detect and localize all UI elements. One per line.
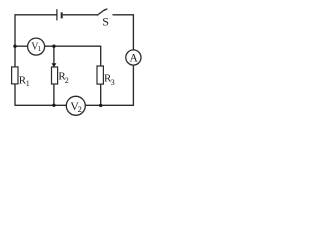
resistor R3 (97, 66, 103, 84)
wire R2 slider lead (53, 46, 55, 64)
resistor R2 (rheostat box) (52, 67, 58, 84)
resistor R1 (12, 67, 18, 84)
battery short plate (61, 12, 63, 18)
svg-text:A: A (130, 53, 139, 65)
wire R3 top lead (100, 46, 102, 66)
battery long plate (56, 9, 58, 20)
wire V1 to node B (45, 45, 54, 47)
svg-text:2: 2 (78, 104, 82, 114)
svg-text:1: 1 (38, 44, 42, 53)
wire battery to switch (63, 14, 97, 16)
voltmeter V2 circle (66, 96, 85, 115)
wire switch to top-right corner (113, 14, 134, 16)
node dot left (V1 tap) (13, 45, 16, 48)
switch blade (97, 10, 105, 16)
svg-text:3: 3 (111, 78, 115, 87)
node dot R2 bottom (52, 104, 55, 107)
wire R1 bottom lead (14, 84, 16, 106)
svg-text:S: S (102, 15, 109, 29)
wire right side upper (to ammeter) (132, 14, 134, 50)
wire node B to R3 corner (54, 45, 101, 47)
wire top-left: left corner to battery (15, 14, 57, 16)
node dot R3 bottom (99, 104, 102, 107)
rheostat arrow head (52, 63, 57, 67)
voltmeter V1 circle (28, 38, 45, 55)
ammeter A circle (126, 50, 141, 65)
node dot B (R2 top) (52, 45, 55, 48)
wire bottom-right: V2 to right corner (85, 104, 133, 106)
wire bottom-left: corner to V2 (15, 104, 66, 106)
wire right side lower (ammeter to corner) (132, 65, 134, 106)
svg-text:2: 2 (65, 76, 69, 85)
svg-text:1: 1 (26, 79, 30, 88)
wire R3 bottom lead (100, 84, 102, 105)
wire middle rail: node to V1 (15, 45, 28, 47)
wire left side (14, 14, 16, 67)
switch tip tick (104, 9, 107, 11)
wire R2 bottom lead (53, 84, 55, 105)
